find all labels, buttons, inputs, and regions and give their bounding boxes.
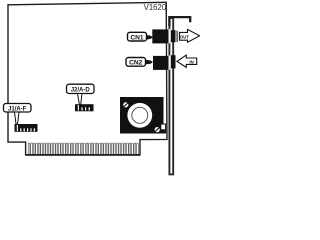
label J1/A-F — [4, 104, 32, 113]
card outline — [8, 2, 167, 155]
connector CN2 nub — [171, 55, 176, 68]
bracket top hook — [169, 17, 190, 26]
pointer CN2 — [145, 60, 153, 65]
pointer J2 — [78, 94, 83, 105]
arrow IN — [177, 55, 197, 67]
svg-text:CN1: CN1 — [130, 34, 144, 41]
svg-text:J1/A-F: J1/A-F — [8, 106, 27, 112]
connector CN1 nub — [171, 30, 176, 42]
bracket gap over CN2 — [169, 56, 172, 70]
svg-text:CN2: CN2 — [129, 60, 143, 67]
screw top-left — [123, 102, 128, 107]
label CN2 — [126, 58, 146, 67]
outer ring — [127, 103, 152, 128]
bottom band extension to card edge — [160, 130, 167, 134]
svg-text:V1620: V1620 — [144, 3, 167, 12]
pointer J1 — [15, 112, 20, 124]
RF modulator block — [120, 97, 166, 134]
jumper block J1 — [15, 124, 38, 132]
bracket body — [169, 18, 173, 174]
edge connector fingers — [28, 143, 138, 154]
screw bottom-right — [155, 127, 160, 132]
bracket gap over CN1 — [169, 29, 172, 43]
connector CN2 body — [153, 56, 169, 70]
label J2/A-D — [67, 84, 95, 93]
white tab box — [161, 124, 166, 130]
pointer CN1 — [146, 35, 153, 40]
arrow OUT — [177, 29, 200, 42]
label CN1 — [128, 32, 147, 41]
jumper block J2 — [75, 104, 94, 111]
svg-text:IN: IN — [189, 59, 193, 64]
svg-text:J2/A-D: J2/A-D — [71, 88, 91, 94]
edge connector bottom band — [26, 154, 140, 156]
connector CN1 body — [152, 29, 168, 43]
svg-text:OUT: OUT — [180, 34, 189, 39]
